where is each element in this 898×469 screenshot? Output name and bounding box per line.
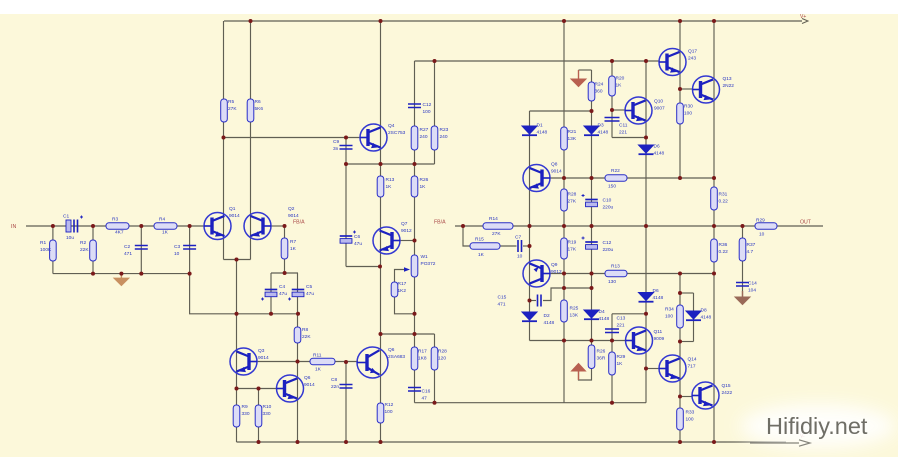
svg-text:1K: 1K (420, 184, 427, 190)
svg-text:2SC753: 2SC753 (388, 130, 406, 136)
svg-text:13K: 13K (568, 136, 577, 142)
transistor Q10 (625, 97, 652, 124)
svg-text:17K: 17K (568, 247, 577, 253)
resistor R2 (90, 240, 97, 261)
svg-text:R5: R5 (228, 99, 234, 105)
wire R34/D8 bottom link (680, 341, 694, 343)
svg-text:Q10: Q10 (654, 99, 663, 105)
wire D1/Q8/Q9 column x=529 (529, 111, 531, 301)
label C12b (423, 102, 432, 115)
svg-text:220u: 220u (603, 205, 614, 211)
diode D6c (639, 293, 654, 302)
transistor Q8 (523, 165, 550, 192)
resistor R22 (605, 175, 627, 182)
junction dots on bias line y=61 (433, 59, 649, 63)
svg-text:D8: D8 (701, 308, 707, 314)
label C3 (174, 244, 180, 257)
capacitor C4 (electrolytic) (261, 290, 277, 301)
resistor R13 (377, 176, 384, 197)
svg-text:R20: R20 (616, 76, 625, 82)
svg-text:Q2: Q2 (288, 206, 295, 212)
junction dots lower bias return (433, 401, 615, 405)
wire R17 bottom link (395, 282, 415, 314)
wire Q7 base stub (400, 240, 415, 242)
junction dots on input line (51, 224, 287, 228)
label R24 (595, 82, 604, 95)
svg-text:4148: 4148 (653, 295, 664, 301)
resistor R31 (711, 187, 718, 210)
junction dots C15 node (528, 286, 594, 303)
junction dots Q10/Q13 bias (610, 87, 682, 140)
resistor R7 (281, 238, 288, 259)
label R10 (263, 404, 272, 417)
wire R7 feedback column (284, 226, 286, 273)
wire Q14 base stub (646, 368, 659, 370)
resistor R25 (561, 300, 568, 322)
diode D3 (zener) (584, 126, 599, 135)
svg-text:47: 47 (422, 396, 428, 402)
label C1 (63, 214, 69, 220)
svg-text:D4: D4 (599, 309, 605, 315)
resistor R4 (154, 223, 177, 230)
wire R28b column (434, 334, 436, 403)
svg-text:4148: 4148 (599, 316, 610, 322)
svg-text:Q15: Q15 (722, 383, 731, 389)
junction dots R34/D8 (678, 291, 682, 344)
wire Q1/Q2 emitter join (224, 259, 251, 261)
wire Q13 base stub (680, 88, 693, 90)
svg-text:C16: C16 (422, 389, 431, 395)
svg-text:9014: 9014 (551, 169, 562, 175)
label R23 (440, 127, 449, 140)
svg-text:4148: 4148 (598, 130, 609, 136)
svg-text:V+: V+ (800, 14, 806, 20)
svg-text:C3: C3 (174, 244, 180, 250)
label R1 (40, 240, 52, 253)
wire output rail y=226 (455, 225, 755, 227)
svg-text:104: 104 (748, 288, 756, 294)
wire R23 column (434, 61, 436, 164)
resistor R29 (755, 223, 777, 230)
label R19 (568, 240, 577, 253)
label C8 (331, 377, 339, 390)
label R26b (597, 349, 606, 362)
svg-text:R36: R36 (719, 242, 728, 248)
wire Q10 emitter link (612, 137, 646, 139)
svg-text:10u: 10u (66, 235, 74, 241)
svg-text:13K: 13K (570, 313, 579, 319)
svg-text:R23: R23 (440, 127, 449, 133)
transistor Q11 (626, 327, 653, 354)
transistor Q7 (373, 227, 400, 254)
svg-text:471: 471 (124, 251, 132, 257)
junction dot C7 node (528, 244, 532, 248)
label C11 (619, 123, 628, 136)
resistor R17b (411, 347, 418, 370)
resistor R13b (605, 270, 627, 277)
wire Q15 base stub (680, 396, 692, 398)
label D3 (598, 123, 609, 136)
svg-text:Q9: Q9 (551, 262, 558, 268)
resistor R36 (711, 239, 718, 262)
junction dots on input ground rail (91, 272, 192, 276)
svg-text:R19: R19 (568, 240, 577, 246)
junction dots on Q11 base line (562, 312, 648, 343)
svg-text:1K: 1K (478, 252, 485, 258)
capacitor C12b (408, 104, 421, 108)
svg-text:0.22: 0.22 (719, 249, 729, 255)
wire main VAS column x=380 (Q4/R13/Q7/Q6b/R12) (380, 21, 382, 442)
svg-text:R13: R13 (386, 177, 395, 183)
label R4 (159, 217, 165, 223)
label W1 (421, 254, 436, 267)
svg-text:D1: D1 (537, 123, 543, 129)
label R25 (570, 306, 579, 319)
W1 wiper arrow (404, 267, 410, 272)
svg-text:36R: 36R (597, 356, 606, 362)
label C5 (306, 284, 314, 297)
svg-text:C7: C7 (515, 235, 521, 241)
diode D8 (686, 311, 701, 320)
svg-text:R28: R28 (568, 192, 577, 198)
label C9 (333, 139, 339, 152)
resistor R29b (609, 352, 616, 375)
label D6c (653, 288, 664, 301)
junction dots on Q9 base row (562, 272, 716, 276)
transistor Q2 (244, 213, 271, 240)
label R11 (313, 353, 322, 359)
svg-text:1K: 1K (162, 230, 169, 236)
diode D4 (584, 310, 599, 319)
svg-text:22n: 22n (331, 384, 339, 390)
label R3 (112, 217, 118, 223)
label Q6 (304, 375, 315, 388)
resistor R3 (106, 223, 129, 230)
junction dots on Q3 base line (296, 360, 349, 365)
svg-text:1K: 1K (290, 246, 297, 252)
wire C13 top link (612, 313, 646, 315)
svg-text:R3: R3 (112, 217, 118, 223)
wire R26/W1 column (414, 164, 416, 334)
svg-text:IN: IN (11, 224, 16, 230)
junction dots feedback network (235, 271, 301, 316)
svg-text:9007: 9007 (654, 106, 665, 112)
svg-text:22K: 22K (80, 247, 89, 253)
svg-text:1K: 1K (616, 83, 623, 89)
label R33 (686, 410, 695, 423)
wire R24/ZD1/C10/C12 column x=591 (591, 70, 593, 288)
svg-text:100: 100 (423, 109, 431, 115)
resistor R37 (739, 238, 746, 261)
capacitor C12 (electrolytic) (582, 237, 598, 250)
label R36 (719, 242, 729, 255)
label D2 (544, 313, 555, 326)
svg-text:120: 120 (438, 356, 446, 362)
label Q7 (401, 221, 412, 234)
wire C5/R8/Q6 column x=297 (297, 273, 299, 442)
transistor Q14 (659, 355, 686, 382)
svg-text:9012: 9012 (401, 228, 412, 234)
wire R26b to ground G3 (579, 369, 592, 381)
label R13 (386, 177, 395, 190)
svg-text:221: 221 (617, 323, 625, 329)
svg-text:100: 100 (684, 111, 692, 117)
svg-text:717: 717 (688, 364, 696, 370)
svg-text:R25: R25 (570, 306, 579, 312)
label C4 (279, 284, 287, 297)
label Q6b (388, 347, 405, 360)
label R20 (616, 76, 625, 89)
svg-text:Q3: Q3 (258, 348, 265, 354)
svg-text:27K: 27K (228, 106, 237, 112)
svg-text:2422: 2422 (722, 390, 733, 396)
wire R10 column (258, 389, 260, 443)
ground G3 (572, 364, 586, 381)
junction dot Q7 base (413, 239, 417, 243)
resistor R15 (470, 243, 500, 250)
svg-text:D6: D6 (653, 288, 659, 294)
label R28 (568, 192, 577, 205)
svg-text:Q13: Q13 (723, 76, 732, 82)
wire ground rail down to C4/C5 bottom (190, 274, 298, 314)
resistor R12b (377, 403, 384, 423)
transistor Q15 (692, 382, 719, 409)
svg-text:FB/A: FB/A (293, 220, 305, 226)
capacitor C10 (electrolytic) (582, 194, 598, 207)
svg-text:R7: R7 (290, 239, 296, 245)
svg-text:Q8: Q8 (551, 162, 558, 168)
svg-text:330: 330 (263, 411, 271, 417)
label R31 (719, 192, 729, 205)
resistor R34 (677, 305, 684, 328)
label R8 (302, 327, 311, 340)
wire V+ top rail (224, 20, 802, 22)
resistor R20 (609, 76, 616, 96)
transistor Q17 (659, 49, 686, 76)
label Q14 (688, 357, 697, 370)
label R30 (684, 104, 693, 117)
capacitor C1 (input electrolytic) (66, 216, 83, 233)
svg-text:360: 360 (595, 89, 603, 95)
svg-text:C5: C5 (306, 284, 312, 290)
resistor R9 (233, 405, 240, 427)
wire lower bias return horizontal (415, 402, 647, 404)
svg-text:Q6: Q6 (304, 375, 311, 381)
svg-text:100K: 100K (40, 247, 52, 253)
capacitor C13 (605, 329, 619, 333)
capacitor C14 (736, 283, 749, 287)
transistor Q13 (693, 76, 720, 103)
label R2 (80, 240, 89, 253)
junction dots on Q8 base row (562, 176, 716, 180)
wire R34 top stub (679, 274, 681, 294)
watermark arrow (V- rail end) (750, 440, 810, 446)
wire W1 wiper link (395, 270, 405, 283)
svg-text:1K: 1K (315, 367, 322, 373)
label R5 (228, 99, 237, 112)
svg-text:9012: 9012 (551, 269, 562, 275)
svg-text:R29: R29 (756, 218, 765, 224)
junction dot diff-pair tail (235, 258, 239, 262)
svg-text:100: 100 (665, 314, 673, 320)
label C14 (748, 281, 757, 294)
svg-text:R13: R13 (611, 264, 620, 270)
svg-text:R1: R1 (40, 240, 46, 246)
wire C12/R27 column (414, 61, 416, 164)
svg-text:R17: R17 (398, 281, 407, 287)
wire R15 to C7 (500, 245, 517, 247)
transistor Q1 (204, 213, 231, 240)
svg-text:Q6: Q6 (388, 347, 395, 353)
wire C8 column (345, 362, 347, 442)
svg-text:0.22: 0.22 (719, 199, 729, 205)
wire C15 right link (543, 288, 564, 301)
wire right diode column x=646 (Q10/D6/D6c/Q11) (645, 61, 647, 403)
capacitor C8 (340, 385, 353, 389)
label D6a (654, 144, 665, 157)
svg-text:4148: 4148 (544, 320, 555, 326)
wire Q2 base stub (271, 225, 285, 227)
svg-text:C4: C4 (279, 284, 285, 290)
capacitor C9 (340, 146, 353, 150)
wire C2 column (140, 226, 142, 274)
wire Q10 base stub (612, 109, 625, 111)
junction dot R24 bottom (590, 109, 594, 113)
label R9 (242, 404, 250, 417)
label Q11 (654, 329, 665, 342)
svg-text:1K2: 1K2 (398, 288, 407, 294)
svg-text:R14: R14 (489, 216, 498, 222)
svg-text:R24: R24 (595, 82, 604, 88)
resistor R30 (677, 103, 684, 124)
svg-text:Q17: Q17 (688, 49, 697, 55)
label C6 (354, 234, 362, 247)
label R17b (418, 349, 427, 362)
svg-text:C8: C8 (331, 377, 337, 383)
svg-text:R11: R11 (313, 353, 322, 359)
svg-text:220u: 220u (603, 247, 614, 253)
svg-text:C15: C15 (498, 295, 507, 301)
svg-text:2N22: 2N22 (723, 83, 735, 89)
wire C6 bottom to Q7 emitter (346, 266, 380, 268)
wire R6/Q2 collector column x=250 (250, 21, 252, 260)
svg-text:R27: R27 (420, 127, 429, 133)
wire V- bottom rail (237, 441, 787, 443)
svg-text:Q14: Q14 (688, 357, 697, 363)
svg-text:1K: 1K (386, 184, 393, 190)
wire diff-pair tail down to bottom rail (236, 260, 238, 443)
wire R20/C11 column (611, 61, 613, 138)
svg-text:R12: R12 (385, 402, 394, 408)
label R12b (385, 402, 394, 415)
label R37 (747, 242, 756, 255)
label C16 (422, 389, 431, 402)
svg-text:9009: 9009 (654, 336, 665, 342)
svg-text:R22: R22 (611, 168, 620, 174)
wire Q11 base line (530, 340, 626, 342)
wire C7 to Q9 collector node (523, 245, 530, 247)
wire Q9 base / R13b row (550, 273, 714, 275)
wire R2 column (92, 226, 94, 274)
label C12 (603, 240, 614, 253)
wire D1/R24 top link (530, 110, 592, 112)
transistor Q6b (357, 347, 388, 378)
svg-text:C11: C11 (619, 123, 628, 129)
svg-text:PO372: PO372 (421, 261, 436, 267)
svg-text:D3: D3 (598, 123, 604, 129)
junction dots Q14/Q15 bases (644, 367, 682, 399)
resistor R10 (255, 405, 262, 427)
label C2 (124, 244, 132, 257)
svg-text:W1: W1 (421, 254, 429, 260)
resistor R28b (431, 347, 438, 370)
resistor R5 (221, 99, 228, 122)
label R26c (420, 177, 429, 190)
svg-text:130: 130 (608, 279, 616, 285)
resistor R26c (411, 176, 418, 197)
svg-text:R17: R17 (418, 349, 427, 355)
svg-text:R30: R30 (684, 104, 693, 110)
svg-text:C13: C13 (617, 316, 626, 322)
label Q10 (654, 99, 665, 112)
label Q4 (388, 123, 406, 136)
wire feedback node horizontal (271, 272, 298, 274)
svg-text:22K: 22K (302, 334, 311, 340)
wire D2 column (529, 301, 531, 341)
svg-text:9014: 9014 (258, 355, 269, 361)
svg-text:5K6: 5K6 (255, 106, 264, 112)
label C10 (603, 198, 614, 211)
junction dots on V- rail (257, 440, 717, 444)
resistor R26b (588, 345, 595, 369)
label R21 (568, 129, 577, 142)
svg-text:C10: C10 (603, 198, 612, 204)
svg-text:4.7: 4.7 (747, 249, 754, 255)
svg-text:Q7: Q7 (401, 221, 408, 227)
junction dots VAS lower (378, 265, 417, 337)
svg-text:FB/A: FB/A (434, 220, 446, 226)
wire output stub (777, 225, 823, 227)
svg-text:C9: C9 (333, 139, 339, 145)
svg-text:4148: 4148 (654, 151, 665, 157)
wire D8 column (693, 293, 695, 342)
svg-text:C1: C1 (63, 214, 69, 220)
svg-text:10: 10 (174, 251, 180, 257)
svg-text:R10: R10 (263, 404, 272, 410)
resistor R21 (561, 127, 568, 150)
wire output devices column x=714 (Q13/R31/R36/Q15) (713, 21, 715, 442)
svg-text:R2: R2 (80, 240, 86, 246)
label R29b (617, 354, 626, 367)
capacitor C3 (183, 246, 196, 250)
ground (input rail) (114, 274, 129, 286)
wire input line (26, 225, 204, 227)
svg-text:150: 150 (608, 184, 616, 190)
label R7 (290, 239, 297, 252)
wire C15 node link (564, 287, 592, 289)
wire Q1 collector to Q4 base (224, 137, 361, 139)
wire FB to R15 (463, 226, 470, 246)
label Q9 (551, 262, 562, 275)
svg-text:1K8: 1K8 (418, 356, 427, 362)
wire Q6b collector node horizontal (381, 333, 435, 335)
svg-text:9014: 9014 (304, 382, 315, 388)
ground G4 (zobel) (735, 291, 750, 305)
svg-text:2SA683: 2SA683 (388, 354, 405, 360)
label Q1 (229, 206, 240, 219)
diode D2 (522, 312, 537, 321)
svg-text:R29: R29 (617, 354, 626, 360)
